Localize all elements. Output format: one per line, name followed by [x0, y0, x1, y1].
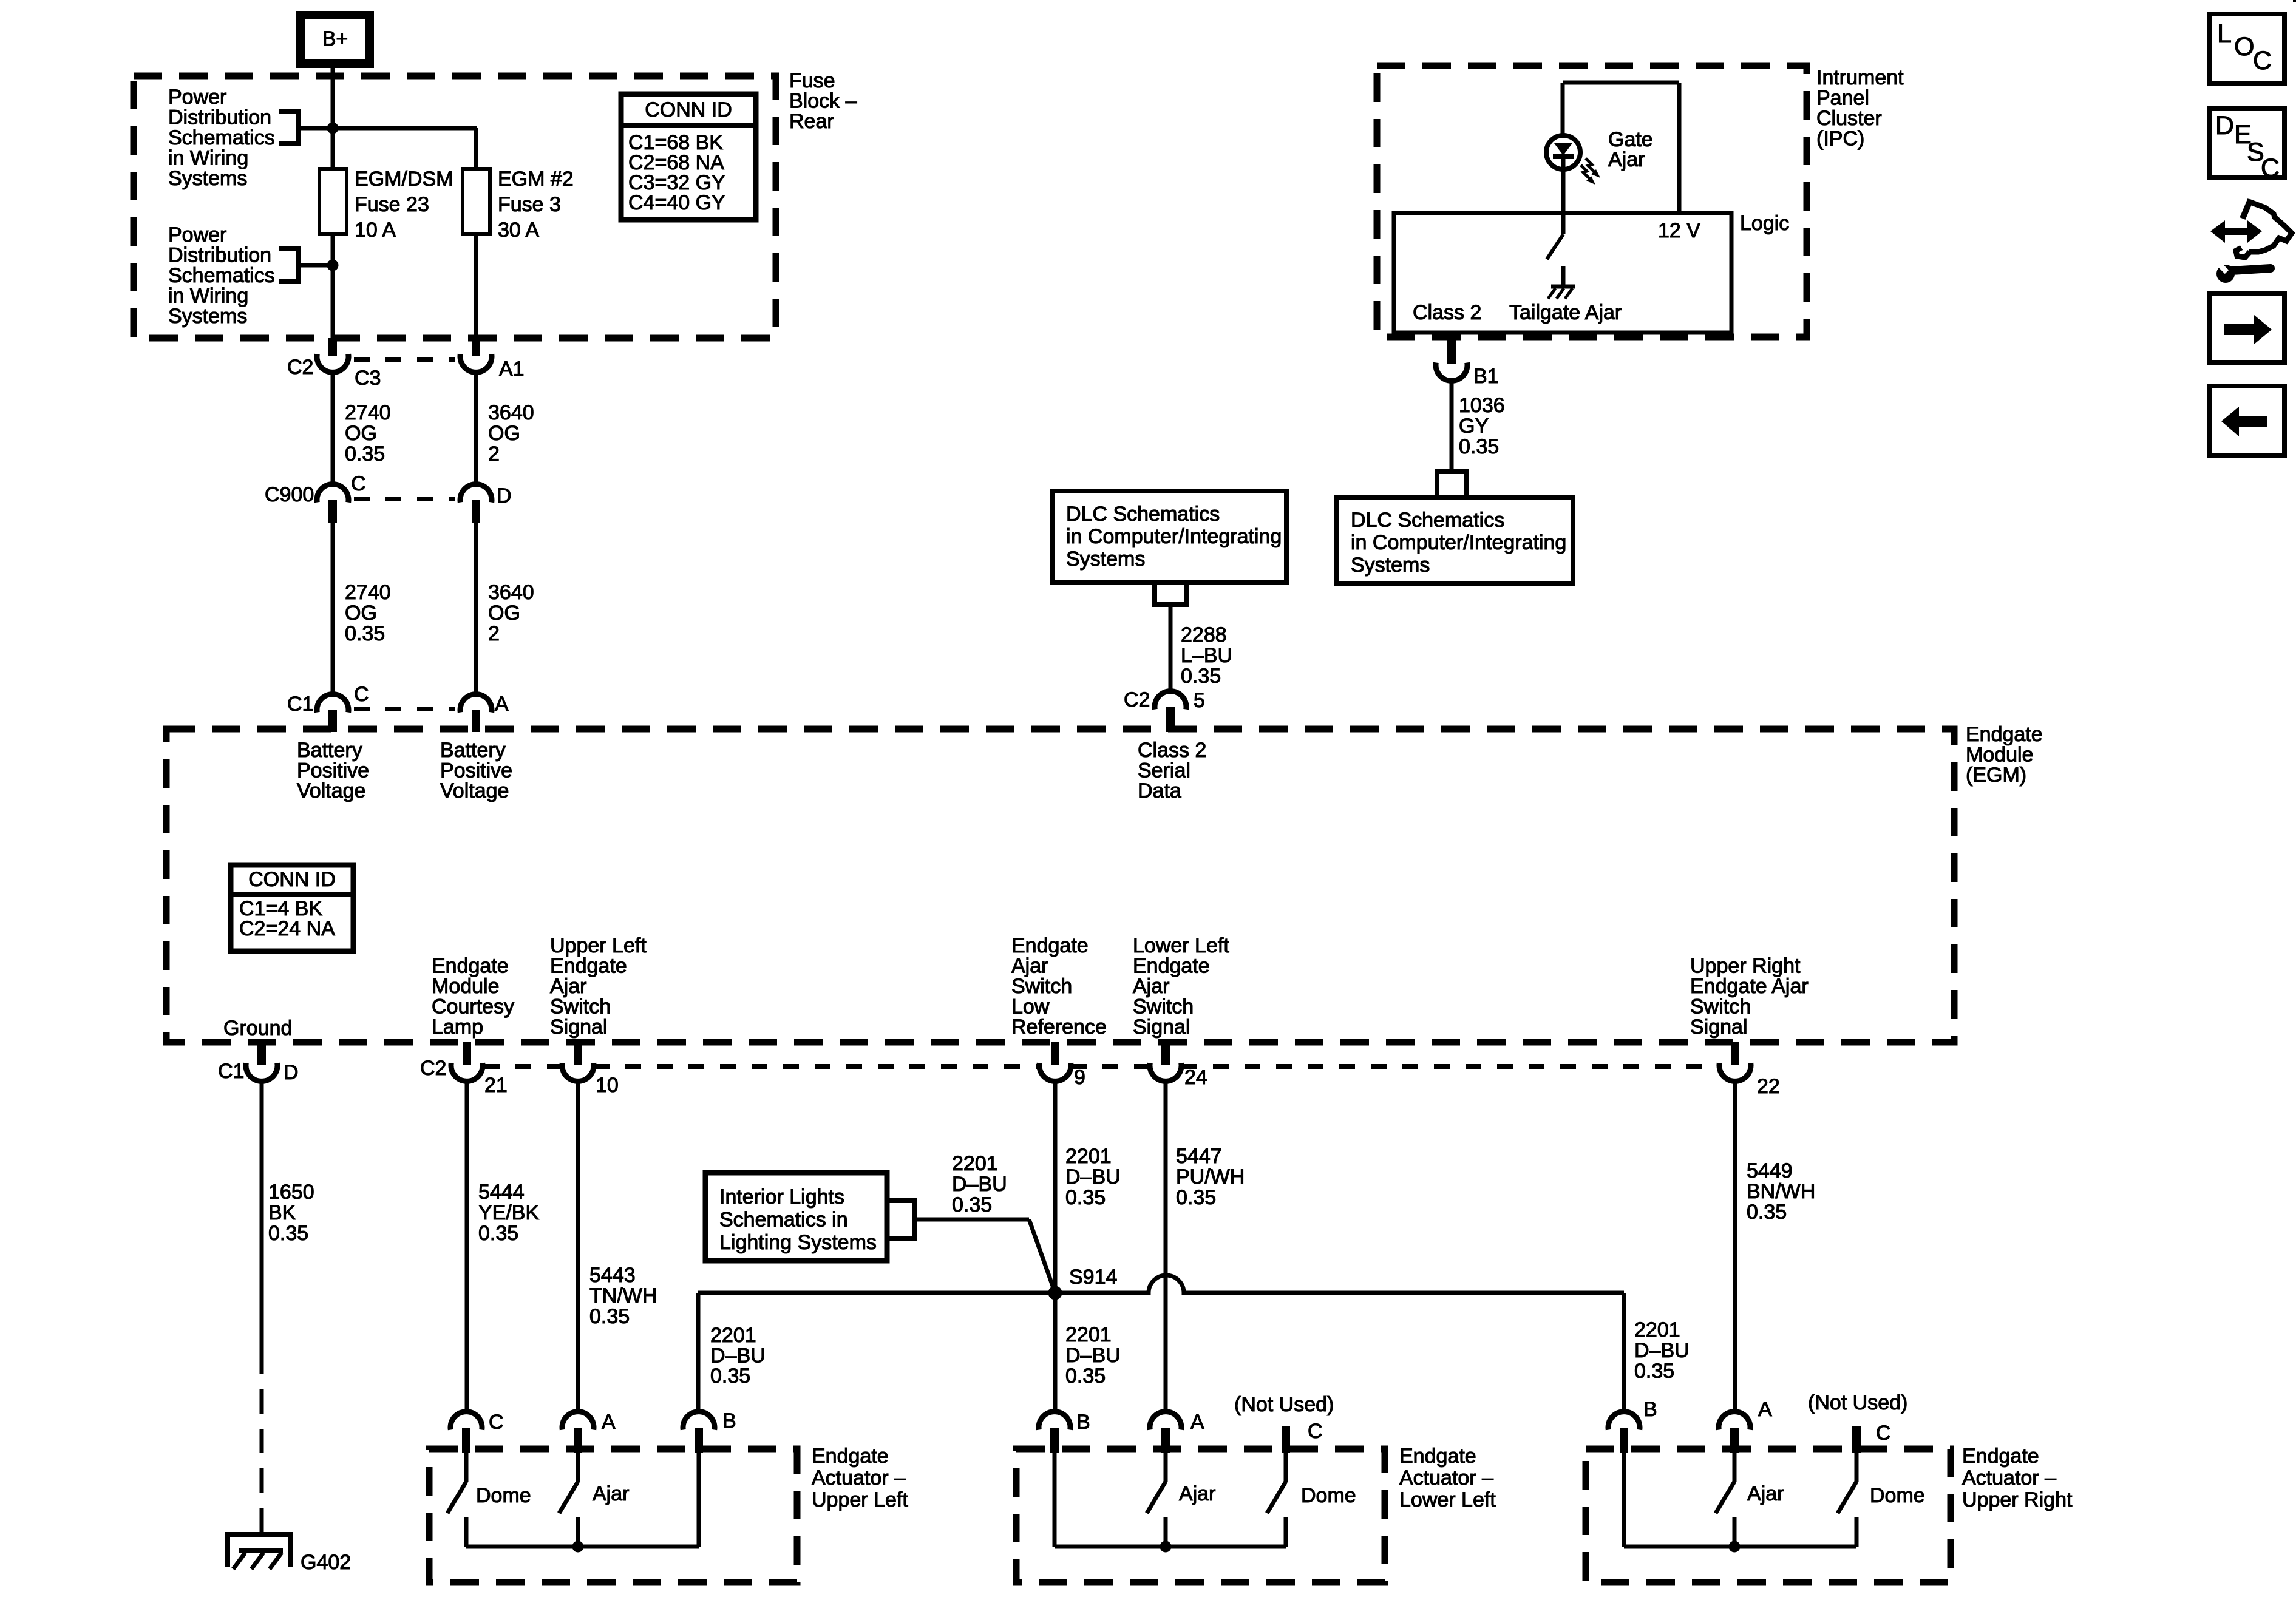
svg-text:D–BU: D–BU	[1065, 1165, 1121, 1188]
svg-text:Ajar: Ajar	[1608, 148, 1645, 171]
svg-text:2740: 2740	[345, 581, 391, 604]
svg-text:Schematics: Schematics	[168, 264, 275, 287]
svg-text:O: O	[2234, 32, 2254, 61]
svg-text:Data: Data	[1138, 779, 1181, 802]
svg-text:Lighting Systems: Lighting Systems	[719, 1231, 877, 1254]
svg-text:3640: 3640	[488, 581, 534, 604]
svg-text:22: 22	[1757, 1075, 1780, 1098]
svg-text:(EGM): (EGM)	[1966, 764, 2026, 787]
svg-text:D–BU: D–BU	[710, 1344, 766, 1368]
svg-text:A: A	[1758, 1398, 1772, 1421]
svg-text:C: C	[2261, 154, 2280, 183]
svg-text:0.35: 0.35	[1065, 1186, 1106, 1209]
svg-text:(Not Used): (Not Used)	[1808, 1391, 1907, 1414]
svg-text:Distribution: Distribution	[168, 244, 271, 267]
svg-text:0.35: 0.35	[1459, 435, 1499, 458]
svg-text:Lower Left: Lower Left	[1399, 1488, 1496, 1511]
svg-text:5449: 5449	[1747, 1159, 1793, 1182]
svg-text:2201: 2201	[1065, 1323, 1112, 1346]
svg-text:D–BU: D–BU	[952, 1173, 1007, 1196]
svg-text:2: 2	[488, 442, 500, 466]
svg-text:0.35: 0.35	[589, 1305, 630, 1328]
svg-text:Actuator –: Actuator –	[1962, 1466, 2056, 1490]
svg-text:C2: C2	[287, 356, 313, 379]
svg-text:G402: G402	[301, 1551, 351, 1574]
svg-text:Upper Right: Upper Right	[1962, 1488, 2073, 1511]
svg-text:Ajar: Ajar	[1747, 1482, 1784, 1505]
svg-text:Switch: Switch	[1133, 995, 1194, 1019]
svg-text:2: 2	[488, 622, 500, 645]
svg-text:DLC Schematics: DLC Schematics	[1066, 503, 1220, 526]
svg-text:0.35: 0.35	[1181, 665, 1221, 688]
svg-text:C2: C2	[1124, 688, 1150, 711]
svg-text:Endgate: Endgate	[432, 955, 509, 978]
svg-text:Systems: Systems	[168, 167, 247, 190]
svg-text:(Not Used): (Not Used)	[1234, 1393, 1334, 1416]
svg-text:C: C	[2253, 46, 2272, 75]
svg-text:0.35: 0.35	[1176, 1186, 1216, 1209]
svg-text:3640: 3640	[488, 401, 534, 424]
svg-text:C: C	[354, 683, 369, 706]
svg-text:Fuse: Fuse	[789, 69, 835, 92]
svg-text:A1: A1	[499, 358, 525, 381]
svg-text:C1: C1	[287, 693, 313, 716]
svg-text:Interior Lights: Interior Lights	[719, 1185, 844, 1209]
svg-text:Voltage: Voltage	[297, 779, 365, 802]
svg-text:0.35: 0.35	[1634, 1360, 1674, 1383]
svg-text:Lower Left: Lower Left	[1133, 934, 1229, 957]
svg-text:Voltage: Voltage	[440, 779, 509, 802]
svg-text:Reference: Reference	[1011, 1015, 1107, 1039]
svg-text:5447: 5447	[1176, 1145, 1222, 1168]
svg-text:D–BU: D–BU	[1634, 1339, 1690, 1362]
svg-text:A: A	[602, 1411, 616, 1434]
svg-text:0.35: 0.35	[710, 1364, 750, 1388]
svg-text:BN/WH: BN/WH	[1747, 1180, 1815, 1203]
svg-text:Class 2: Class 2	[1138, 739, 1206, 762]
svg-text:C2=24 NA: C2=24 NA	[239, 917, 335, 940]
svg-text:D: D	[497, 484, 512, 507]
svg-text:CONN ID: CONN ID	[645, 98, 732, 121]
svg-text:Ajar: Ajar	[1011, 955, 1048, 978]
svg-text:Signal: Signal	[1690, 1015, 1748, 1039]
svg-text:Dome: Dome	[1301, 1484, 1356, 1507]
svg-text:OG: OG	[345, 602, 377, 625]
svg-text:C2: C2	[420, 1057, 446, 1080]
svg-text:Endgate: Endgate	[1133, 955, 1210, 978]
svg-text:9: 9	[1074, 1066, 1085, 1089]
svg-text:Ajar: Ajar	[1133, 975, 1169, 998]
svg-text:L–BU: L–BU	[1181, 644, 1232, 667]
svg-text:S914: S914	[1069, 1266, 1117, 1289]
svg-text:Endgate: Endgate	[550, 955, 627, 978]
svg-text:Dome: Dome	[1870, 1484, 1925, 1507]
svg-text:Ajar: Ajar	[593, 1482, 629, 1505]
svg-text:10: 10	[596, 1074, 619, 1097]
svg-text:Ajar: Ajar	[550, 975, 586, 998]
svg-text:Panel: Panel	[1816, 87, 1869, 110]
svg-text:Actuator –: Actuator –	[812, 1466, 906, 1490]
svg-text:Logic: Logic	[1740, 212, 1789, 235]
svg-text:Power: Power	[168, 86, 226, 109]
svg-text:0.35: 0.35	[268, 1222, 308, 1245]
svg-text:Endgate: Endgate	[1966, 723, 2043, 746]
svg-text:Battery: Battery	[440, 739, 506, 762]
svg-text:Upper Left: Upper Left	[550, 934, 647, 957]
svg-text:OG: OG	[488, 602, 520, 625]
svg-text:D: D	[2215, 111, 2234, 140]
svg-text:Courtesy: Courtesy	[432, 995, 514, 1019]
svg-text:0.35: 0.35	[1065, 1364, 1106, 1388]
svg-text:Systems: Systems	[1351, 554, 1430, 577]
svg-text:5: 5	[1194, 689, 1205, 712]
svg-text:in Wiring: in Wiring	[168, 147, 248, 170]
svg-text:Intrument: Intrument	[1816, 66, 1904, 89]
svg-text:Systems: Systems	[1066, 547, 1145, 571]
svg-text:Ajar: Ajar	[1179, 1482, 1215, 1505]
svg-text:0.35: 0.35	[952, 1193, 992, 1216]
svg-text:Endgate: Endgate	[1962, 1445, 2039, 1468]
svg-text:1036: 1036	[1459, 394, 1505, 417]
svg-text:D–BU: D–BU	[1065, 1344, 1121, 1367]
svg-text:Battery: Battery	[297, 739, 362, 762]
svg-text:0.35: 0.35	[1747, 1201, 1787, 1224]
svg-text:Low: Low	[1011, 995, 1050, 1019]
svg-text:A: A	[495, 693, 509, 716]
svg-text:C: C	[489, 1411, 504, 1434]
svg-text:in Wiring: in Wiring	[168, 285, 248, 308]
svg-text:Switch: Switch	[1011, 975, 1072, 998]
svg-text:Serial: Serial	[1138, 759, 1190, 782]
svg-text:(IPC): (IPC)	[1816, 127, 1864, 151]
svg-text:Signal: Signal	[1133, 1015, 1190, 1039]
svg-text:Schematics in: Schematics in	[719, 1209, 848, 1232]
svg-text:Tailgate Ajar: Tailgate Ajar	[1509, 301, 1622, 324]
svg-text:BK: BK	[268, 1201, 296, 1224]
svg-text:C3: C3	[355, 367, 381, 390]
svg-text:Ground: Ground	[223, 1017, 292, 1040]
svg-text:5444: 5444	[478, 1181, 525, 1204]
svg-text:in Computer/Integrating: in Computer/Integrating	[1066, 525, 1282, 548]
svg-text:Module: Module	[1966, 744, 2034, 767]
svg-text:Positive: Positive	[297, 759, 369, 782]
svg-text:C4=40 GY: C4=40 GY	[628, 191, 725, 214]
svg-text:Signal: Signal	[550, 1015, 608, 1039]
svg-text:DLC Schematics: DLC Schematics	[1351, 509, 1504, 532]
svg-text:10 A: 10 A	[355, 219, 396, 242]
svg-text:L: L	[2217, 19, 2232, 49]
svg-text:TN/WH: TN/WH	[589, 1284, 657, 1307]
svg-text:0.35: 0.35	[478, 1222, 518, 1245]
svg-text:B+: B+	[322, 27, 348, 50]
svg-text:C: C	[351, 472, 366, 495]
svg-text:OG: OG	[488, 422, 520, 445]
svg-text:in Computer/Integrating: in Computer/Integrating	[1351, 531, 1566, 554]
svg-text:Upper Right: Upper Right	[1690, 955, 1801, 978]
svg-text:24: 24	[1184, 1066, 1207, 1089]
svg-text:Upper Left: Upper Left	[812, 1488, 908, 1511]
svg-text:Endgate Ajar: Endgate Ajar	[1690, 975, 1809, 998]
svg-text:C: C	[1876, 1422, 1891, 1445]
svg-text:C900: C900	[265, 483, 314, 506]
svg-text:0.35: 0.35	[345, 622, 385, 645]
svg-text:2201: 2201	[710, 1324, 756, 1347]
svg-text:GY: GY	[1459, 415, 1489, 438]
svg-text:Endgate: Endgate	[812, 1445, 889, 1468]
svg-text:EGM #2: EGM #2	[498, 168, 574, 191]
svg-text:Endgate: Endgate	[1011, 934, 1089, 957]
svg-text:Rear: Rear	[789, 110, 834, 133]
svg-text:EGM/DSM: EGM/DSM	[355, 168, 453, 191]
svg-text:Dome: Dome	[476, 1484, 531, 1507]
svg-text:5443: 5443	[589, 1264, 636, 1287]
svg-text:21: 21	[484, 1074, 508, 1097]
svg-text:B1: B1	[1473, 365, 1499, 388]
svg-text:Fuse 23: Fuse 23	[355, 193, 429, 216]
svg-text:A: A	[1190, 1411, 1204, 1434]
svg-text:Actuator –: Actuator –	[1399, 1466, 1493, 1490]
svg-text:Endgate: Endgate	[1399, 1445, 1476, 1468]
svg-text:2201: 2201	[952, 1152, 998, 1175]
svg-text:Class 2: Class 2	[1413, 301, 1481, 324]
svg-text:Switch: Switch	[550, 995, 611, 1019]
svg-text:YE/BK: YE/BK	[478, 1201, 539, 1224]
svg-text:2740: 2740	[345, 401, 391, 424]
svg-text:Switch: Switch	[1690, 995, 1751, 1019]
svg-text:Systems: Systems	[168, 305, 247, 328]
svg-text:OG: OG	[345, 422, 377, 445]
svg-text:Cluster: Cluster	[1816, 107, 1882, 130]
svg-text:Fuse 3: Fuse 3	[498, 193, 561, 216]
svg-text:Schematics: Schematics	[168, 126, 275, 149]
svg-text:D: D	[284, 1061, 299, 1084]
svg-text:PU/WH: PU/WH	[1176, 1165, 1245, 1188]
svg-text:1650: 1650	[268, 1181, 314, 1204]
svg-text:0.35: 0.35	[345, 442, 385, 466]
svg-text:2201: 2201	[1634, 1318, 1680, 1341]
svg-text:2201: 2201	[1065, 1145, 1112, 1168]
svg-text:Power: Power	[168, 223, 226, 246]
svg-text:B: B	[722, 1409, 736, 1432]
svg-text:2288: 2288	[1181, 623, 1227, 646]
svg-text:C1: C1	[218, 1060, 244, 1083]
svg-text:CONN ID: CONN ID	[248, 868, 336, 891]
svg-text:Lamp: Lamp	[432, 1015, 483, 1039]
svg-text:Block –: Block –	[789, 90, 857, 113]
svg-text:30 A: 30 A	[498, 219, 539, 242]
svg-text:Module: Module	[432, 975, 500, 998]
svg-text:Distribution: Distribution	[168, 106, 271, 129]
svg-text:B: B	[1076, 1411, 1090, 1434]
svg-text:Positive: Positive	[440, 759, 512, 782]
svg-text:12 V: 12 V	[1658, 219, 1700, 242]
svg-text:C: C	[1308, 1420, 1323, 1443]
svg-text:B: B	[1643, 1398, 1657, 1421]
